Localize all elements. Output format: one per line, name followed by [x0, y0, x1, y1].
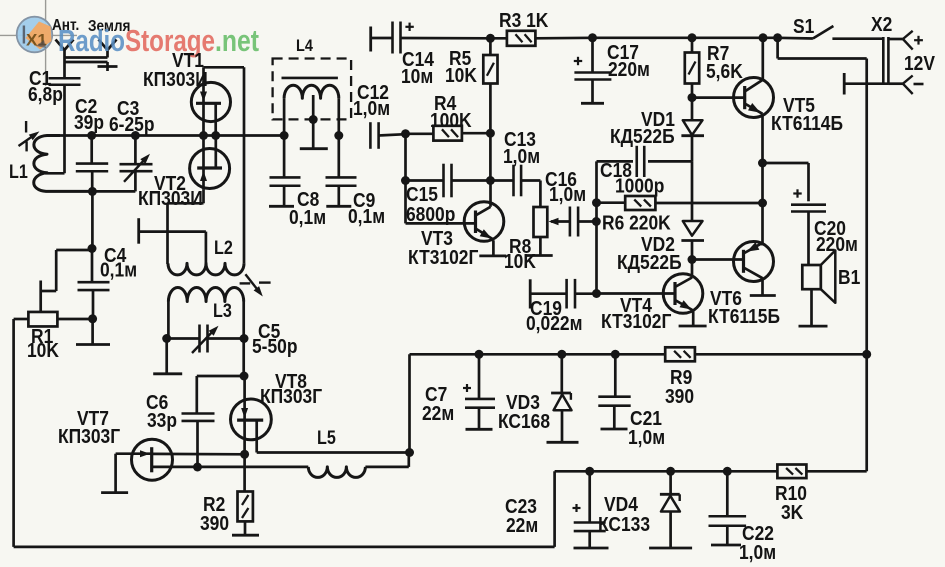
svg-text:6,8р: 6,8р [28, 84, 63, 107]
svg-text:B1: B1 [838, 267, 861, 290]
power minus wire [888, 82, 903, 85]
inductor L1 [34, 136, 93, 192]
svg-text:1,0м: 1,0м [353, 98, 390, 121]
svg-text:10K: 10K [445, 65, 477, 88]
L4 tap to ground [312, 95, 315, 148]
svg-text:КД522Б: КД522Б [617, 252, 682, 275]
svg-text:КП303Г: КП303Г [260, 386, 322, 409]
spine wire L3 to VT8 gate [242, 339, 245, 377]
svg-text:L1: L1 [9, 161, 28, 183]
VT1 gate loop wire to L2/L3 spine [204, 66, 245, 69]
svg-text:390: 390 [665, 386, 694, 409]
svg-text:КП303Г: КП303Г [58, 426, 120, 449]
svg-text:5-50р: 5-50р [252, 336, 298, 359]
left rail wire [12, 319, 15, 547]
wire VT7 source rail (to L5) [152, 466, 309, 469]
svg-text:3K: 3K [781, 502, 804, 525]
wire to C6 [197, 375, 244, 378]
diode VD2 КД522Б [683, 221, 703, 236]
svg-text:220м: 220м [816, 234, 858, 257]
svg-text:КТ6115Б: КТ6115Б [708, 306, 780, 329]
svg-text:L4: L4 [296, 37, 313, 55]
svg-text:220м: 220м [608, 59, 650, 82]
svg-text:22м: 22м [506, 515, 538, 538]
svg-text:КП303И: КП303И [138, 188, 203, 211]
svg-text:L2: L2 [214, 237, 233, 259]
ground T-bar at L2 tap [137, 218, 140, 244]
resistor R3 [490, 37, 507, 40]
svg-text:390: 390 [200, 513, 229, 536]
wire feedback rail [595, 161, 598, 293]
variable capacitor C5 [162, 334, 171, 343]
capacitor C1 [49, 77, 81, 80]
ground under L3 left [165, 339, 168, 373]
svg-text:RadioStorage.net: RadioStorage.net [58, 23, 259, 58]
speaker B1 [802, 265, 821, 289]
main bus wire (top of tank) [47, 134, 284, 137]
wire VD1-VD2 link [691, 161, 694, 221]
inductor L2 with grounded tap [168, 263, 244, 275]
svg-text:L5: L5 [317, 427, 336, 449]
transistor VT8 КП303Г (JFET) [231, 399, 272, 440]
capacitor C19 with input terminal bar [529, 279, 532, 308]
capacitor C22 [726, 471, 729, 516]
switch S1 [778, 36, 813, 39]
transistor VT1 КП303И (JFET) [191, 82, 230, 121]
wire VT5 emitter to C20 [763, 162, 809, 165]
wire tank bottom [92, 190, 135, 193]
svg-text:КП303И: КП303И [143, 69, 208, 92]
VT8 drain wire to supply node [257, 451, 410, 454]
svg-text:5,6K: 5,6K [706, 61, 743, 84]
svg-text:0,1м: 0,1м [289, 207, 326, 230]
capacitor C16 with wiper arrow [551, 220, 570, 223]
svg-text:1,0м: 1,0м [739, 542, 776, 565]
transistor VT6 КТ6115Б [734, 242, 774, 282]
svg-text:КТ3102Г: КТ3102Г [601, 311, 672, 334]
capacitor C8 [283, 136, 286, 178]
capacitor C6 [182, 412, 215, 415]
wire to mid supply rail W3 [408, 354, 411, 452]
capacitor C7 electrolytic [478, 354, 481, 398]
svg-text:6-25р: 6-25р [109, 114, 155, 137]
antenna symbol Ант with feeder and X1 terminal [56, 40, 65, 51]
capacitor C21 [614, 354, 617, 396]
wire mid supply rail [410, 353, 666, 356]
resistor R1 [56, 249, 92, 252]
zener VD4 КС133 [669, 471, 672, 494]
svg-text:0,1м: 0,1м [348, 206, 385, 229]
wire VT7 drain to node [152, 453, 245, 456]
svg-text:R3 1K: R3 1K [499, 10, 549, 33]
capacitor C4 and node to R1 [91, 191, 94, 248]
VT7 gate to ground [114, 454, 117, 492]
capacitor C20 electrolytic [791, 203, 826, 206]
diode VD1 КД522Б [691, 98, 694, 121]
zener VD3 КС168 [560, 354, 563, 393]
ground under C4 [91, 319, 94, 344]
svg-text:КД522Б: КД522Б [610, 126, 675, 149]
shielded inductor L4 (dashed box) [273, 59, 352, 120]
emitter rail VT5-VT6 [761, 115, 764, 246]
resistor R9 [665, 347, 695, 361]
resistor R6 [597, 201, 626, 204]
crosshair registration lines [0, 34, 77, 36]
svg-text:L3: L3 [213, 300, 232, 322]
resistor R4 [406, 132, 434, 135]
resistor R2 [243, 454, 246, 492]
capacitor C15 [406, 179, 444, 182]
earth ground symbol Земля [106, 62, 109, 67]
svg-text:100K: 100K [430, 110, 472, 133]
potentiometer R8 with wiper from C16 [539, 181, 542, 208]
svg-text:S1: S1 [793, 16, 815, 39]
transistor VT2 КП303И (JFET) [190, 149, 230, 189]
svg-text:33р: 33р [147, 410, 177, 433]
svg-text:1,0м: 1,0м [503, 146, 540, 169]
wire R5 node to collector node [489, 133, 492, 180]
svg-text:10K: 10K [27, 340, 59, 363]
variable capacitor C3 [131, 131, 140, 140]
wire node to C15 row [404, 134, 407, 181]
inductor L3 [168, 288, 243, 302]
RadioStorage.net logo circle with X1 [17, 17, 53, 53]
resistor R10 [777, 465, 806, 479]
transistor VT7 КП303Г (JFET) [132, 439, 173, 480]
capacitor C2 [87, 131, 96, 140]
capacitor C14 with input terminal bar [369, 27, 372, 52]
transistor VT3 КТ3102Г [464, 202, 504, 242]
svg-text:0,022м: 0,022м [526, 313, 582, 336]
capacitor C13 [490, 179, 513, 182]
svg-text:КТ3102Г: КТ3102Г [408, 247, 479, 270]
svg-text:КС133: КС133 [598, 514, 650, 537]
wire switched supply branch [776, 38, 779, 59]
svg-text:12V: 12V [904, 53, 935, 76]
svg-text:1,0м: 1,0м [628, 427, 665, 450]
svg-text:22м: 22м [422, 403, 454, 426]
svg-text:1,0м: 1,0м [549, 184, 586, 207]
svg-text:КС168: КС168 [498, 411, 550, 434]
top supply bus [593, 36, 778, 39]
svg-text:10м: 10м [401, 66, 433, 89]
capacitor C18 [597, 160, 634, 163]
bottom common rail wire [14, 546, 555, 549]
capacitor C23 electrolytic [588, 471, 591, 522]
transistor VT4 КТ3102Г [663, 274, 703, 314]
svg-text:10K: 10K [504, 251, 536, 274]
wire C1 to L1 tap (crosses bus) [63, 85, 66, 174]
inductor L5 [308, 467, 365, 478]
svg-text:0,1м: 0,1м [100, 259, 137, 282]
svg-text:R6 220K: R6 220K [602, 212, 671, 235]
variable arrow of L1 [19, 134, 37, 146]
right rail wire [865, 59, 868, 472]
connector X2 [882, 37, 885, 85]
resistor R7 [691, 38, 694, 53]
resistor R5 [489, 38, 492, 55]
capacitor C12 [369, 122, 372, 149]
svg-text:39р: 39р [74, 112, 104, 135]
svg-text:1000р: 1000р [615, 175, 664, 198]
capacitor C9 [337, 136, 340, 178]
transistor VT5 КТ6114Б [734, 78, 774, 118]
variable coupling arrow between L2 and L3 [245, 274, 260, 293]
svg-text:X2: X2 [871, 14, 892, 37]
ground T-bar on minus wire [843, 73, 846, 95]
capacitor C17 electrolytic [591, 38, 594, 73]
VT2 source path to L2 left end [202, 189, 205, 203]
svg-text:КТ6114Б: КТ6114Б [771, 113, 843, 136]
wire low supply rail W4 [555, 470, 778, 473]
